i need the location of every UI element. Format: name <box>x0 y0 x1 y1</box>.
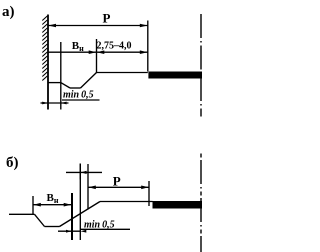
small arrow in gap (fig b) <box>81 171 87 174</box>
arrowhead at x=80.3 pointing left (fig b) <box>81 230 87 233</box>
profile ledge (fig a) <box>48 82 61 84</box>
svg-text:б): б) <box>6 155 19 171</box>
long vertical extension x=80.3 (fig b) <box>79 164 81 241</box>
arrowhead right of 2,75-4,0 (fig a) <box>140 50 148 54</box>
extension line x=33 (fig b) <box>32 196 34 214</box>
shelf under min 0,5 (fig a) <box>62 99 100 101</box>
bottom dimension line min 0,5 (fig a) <box>41 102 69 104</box>
svg-text:min 0,5: min 0,5 <box>63 90 94 101</box>
extension line x=60.8 (fig a) <box>60 42 62 110</box>
wall vertical line (fig a) <box>47 15 49 110</box>
dimension line P (fig a) <box>48 25 148 27</box>
extension vertical x=149 (fig b) <box>148 181 150 206</box>
svg-text:Bн: Bн <box>47 192 59 205</box>
arrowhead right of P (fig b) <box>141 186 149 190</box>
arrowhead left of P (fig b) <box>88 186 96 190</box>
wall hatching (fig a) <box>42 16 47 81</box>
arrowhead left of P (fig a) <box>48 24 56 28</box>
arrowhead left of 2,75-4,0 (fig a) <box>97 50 105 54</box>
shelf under min 0,5 (fig b) <box>80 228 130 230</box>
groove bottom (fig b) <box>45 226 60 228</box>
dimension line 2,75-4,0 (fig a) <box>97 51 148 53</box>
svg-text:а): а) <box>2 4 15 20</box>
dimension line Bн (fig b) <box>33 204 72 206</box>
dimension line P (fig b) <box>88 186 149 188</box>
groove right slant (fig a) <box>81 73 97 89</box>
right part section bar (fig a) <box>148 72 202 79</box>
bottom dimension line (fig b) <box>58 230 80 232</box>
svg-text:P: P <box>103 11 111 26</box>
dimension line Bн (fig a) <box>48 51 97 53</box>
arrowhead right of Bн (fig a) <box>89 50 97 54</box>
arrowhead right of Bн (fig b) <box>64 203 72 207</box>
right part section bar (fig b) <box>153 201 203 209</box>
end face vertical x=72 (fig b) <box>71 193 73 240</box>
centerline dash-dot (fig a) <box>200 14 202 117</box>
arrowhead right of P (fig a) <box>140 24 148 28</box>
extension x=88 (fig b) <box>87 164 89 210</box>
extension line x=96.5 (fig a) <box>96 39 98 73</box>
arrowhead left of Bн (fig b) <box>33 203 41 207</box>
right part top surface (fig b) <box>100 201 153 203</box>
right part end face vertical (fig a) <box>147 21 149 72</box>
gap tick 1 (fig b) <box>79 164 81 180</box>
groove right slant (fig b) <box>60 202 101 227</box>
arrowhead at wall, pointing right (fig a) <box>42 102 48 105</box>
groove bottom (fig a) <box>70 87 81 89</box>
top surface right of groove (fig a) <box>97 72 148 74</box>
groove left slant (fig a) <box>61 83 70 88</box>
arrowhead at x=60.8, pointing left (fig a) <box>61 102 67 105</box>
small gap dimension line (fig b) <box>66 171 102 173</box>
svg-text:2,75–4,0: 2,75–4,0 <box>97 40 132 51</box>
svg-text:Bн: Bн <box>72 40 84 53</box>
left pipe surface (fig b) <box>9 213 35 215</box>
arrowhead at x=72 pointing right (fig b) <box>66 230 72 233</box>
centerline dash-dot (fig b) <box>200 154 202 252</box>
svg-text:P: P <box>113 173 121 188</box>
groove left slant (fig b) <box>35 214 45 226</box>
